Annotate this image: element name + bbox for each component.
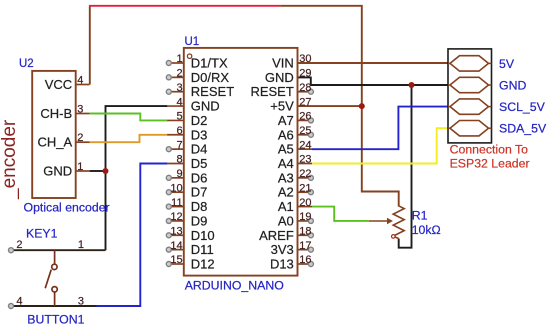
svg-text:ARDUINO_NANO: ARDUINO_NANO bbox=[185, 279, 284, 293]
svg-text:A1: A1 bbox=[278, 199, 294, 214]
svg-text:10: 10 bbox=[170, 182, 182, 194]
svg-text:GND: GND bbox=[265, 70, 294, 85]
svg-text:16: 16 bbox=[299, 254, 311, 266]
svg-text:D7: D7 bbox=[191, 185, 208, 200]
svg-text:14: 14 bbox=[170, 240, 182, 252]
svg-text:D9: D9 bbox=[191, 213, 208, 228]
svg-text:D2: D2 bbox=[191, 113, 208, 128]
svg-text:CH_A: CH_A bbox=[38, 135, 73, 150]
svg-text:4: 4 bbox=[16, 295, 22, 307]
svg-text:BUTTON1: BUTTON1 bbox=[27, 313, 84, 327]
svg-text:25: 25 bbox=[299, 125, 311, 137]
svg-text:A6: A6 bbox=[278, 127, 294, 142]
svg-text:29: 29 bbox=[299, 68, 311, 80]
svg-text:+5V: +5V bbox=[270, 99, 294, 114]
svg-text:7: 7 bbox=[176, 139, 182, 151]
svg-text:2: 2 bbox=[77, 132, 83, 144]
svg-text:22: 22 bbox=[299, 168, 311, 180]
svg-text:Optical encoder: Optical encoder bbox=[24, 200, 110, 214]
svg-text:27: 27 bbox=[299, 96, 311, 108]
svg-text:ESP32 Leader: ESP32 Leader bbox=[450, 157, 530, 171]
svg-text:13: 13 bbox=[170, 225, 182, 237]
svg-text:GND: GND bbox=[191, 99, 220, 114]
svg-text:A7: A7 bbox=[278, 113, 294, 128]
svg-text:AREF: AREF bbox=[259, 228, 294, 243]
svg-text:R1: R1 bbox=[412, 208, 428, 222]
svg-text:30: 30 bbox=[299, 53, 311, 65]
svg-text:D0/RX: D0/RX bbox=[191, 70, 230, 85]
svg-text:9: 9 bbox=[176, 168, 182, 180]
svg-text:D6: D6 bbox=[191, 170, 208, 185]
svg-text:8: 8 bbox=[176, 154, 182, 166]
svg-text:U1: U1 bbox=[185, 36, 200, 48]
svg-text:D12: D12 bbox=[191, 256, 215, 271]
svg-text:GND: GND bbox=[499, 78, 526, 92]
svg-text:Connection To: Connection To bbox=[450, 142, 529, 156]
svg-text:3: 3 bbox=[77, 104, 83, 116]
svg-text:4: 4 bbox=[176, 96, 182, 108]
svg-text:2: 2 bbox=[176, 68, 182, 80]
svg-text:21: 21 bbox=[299, 182, 311, 194]
svg-text:4: 4 bbox=[77, 75, 83, 87]
svg-text:D3: D3 bbox=[191, 127, 208, 142]
svg-text:5V: 5V bbox=[499, 57, 515, 71]
svg-text:D5: D5 bbox=[191, 156, 208, 171]
svg-text:D4: D4 bbox=[191, 142, 208, 157]
svg-text:15: 15 bbox=[170, 254, 182, 266]
svg-text:VIN: VIN bbox=[272, 56, 294, 71]
svg-text:28: 28 bbox=[299, 82, 311, 94]
svg-text:_encoder: _encoder bbox=[0, 119, 20, 200]
svg-text:23: 23 bbox=[299, 154, 311, 166]
svg-text:3: 3 bbox=[176, 82, 182, 94]
svg-text:6: 6 bbox=[176, 125, 182, 137]
svg-text:RESET: RESET bbox=[191, 84, 234, 99]
svg-text:1: 1 bbox=[77, 161, 83, 173]
svg-text:26: 26 bbox=[299, 111, 311, 123]
svg-text:A0: A0 bbox=[278, 213, 294, 228]
svg-text:D11: D11 bbox=[191, 242, 214, 257]
svg-text:D8: D8 bbox=[191, 199, 208, 214]
svg-text:VCC: VCC bbox=[45, 77, 72, 92]
svg-text:24: 24 bbox=[299, 139, 311, 151]
svg-text:D10: D10 bbox=[191, 228, 215, 243]
svg-text:1: 1 bbox=[176, 53, 182, 65]
svg-text:5: 5 bbox=[176, 111, 182, 123]
svg-text:20: 20 bbox=[299, 197, 311, 209]
svg-text:A5: A5 bbox=[278, 142, 294, 157]
svg-text:3: 3 bbox=[78, 295, 84, 307]
svg-text:U2: U2 bbox=[19, 58, 34, 70]
svg-text:D13: D13 bbox=[270, 256, 294, 271]
svg-text:18: 18 bbox=[299, 225, 311, 237]
svg-text:11: 11 bbox=[171, 197, 182, 209]
svg-text:10kΩ: 10kΩ bbox=[412, 223, 441, 237]
svg-text:SDA_5V: SDA_5V bbox=[499, 122, 547, 136]
svg-text:12: 12 bbox=[170, 211, 182, 223]
svg-text:D1/TX: D1/TX bbox=[191, 56, 228, 71]
svg-text:A2: A2 bbox=[278, 185, 294, 200]
svg-text:RESET: RESET bbox=[250, 84, 293, 99]
svg-text:A3: A3 bbox=[278, 170, 294, 185]
svg-text:GND: GND bbox=[43, 163, 72, 178]
svg-text:CH-B: CH-B bbox=[40, 106, 72, 121]
svg-text:SCL_5V: SCL_5V bbox=[499, 100, 546, 114]
svg-text:17: 17 bbox=[299, 240, 311, 252]
svg-text:3V3: 3V3 bbox=[271, 242, 294, 257]
svg-text:1: 1 bbox=[78, 239, 84, 251]
svg-text:19: 19 bbox=[299, 211, 311, 223]
svg-text:A4: A4 bbox=[278, 156, 294, 171]
svg-text:KEY1: KEY1 bbox=[26, 227, 58, 241]
svg-text:2: 2 bbox=[16, 239, 22, 251]
